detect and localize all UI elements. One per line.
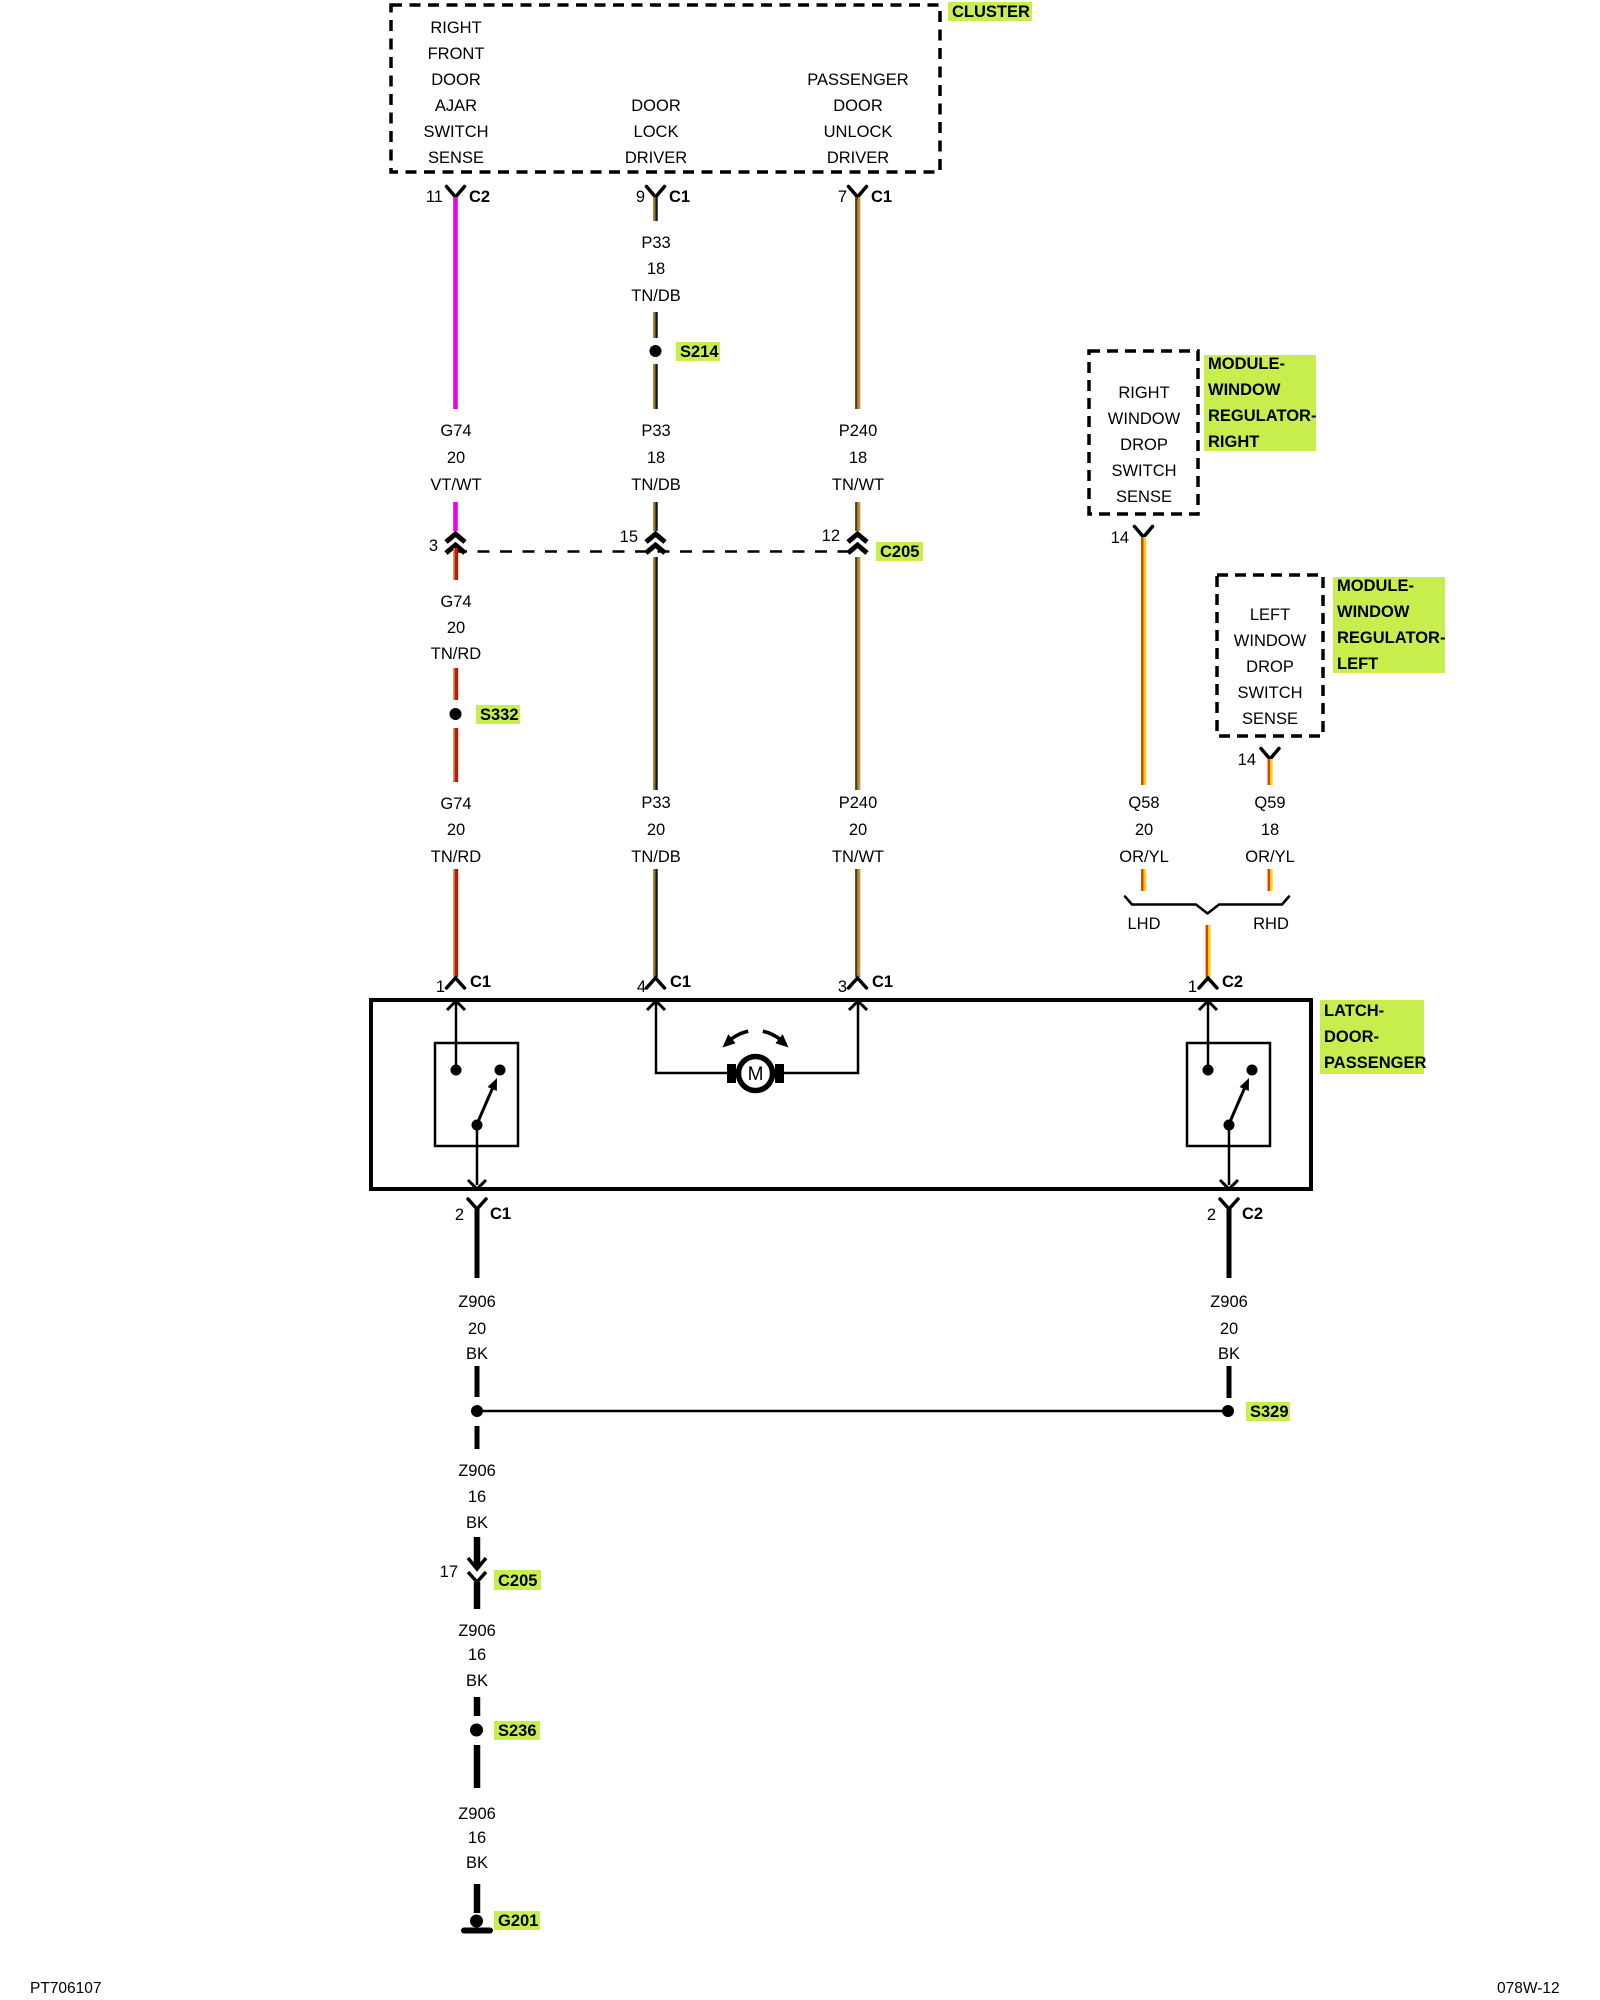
svg-text:MODULE-: MODULE-: [1208, 355, 1285, 373]
svg-text:TN/WT: TN/WT: [832, 476, 884, 494]
svg-text:16: 16: [468, 1646, 486, 1664]
pin DOOR LOCK DRIVER: [625, 97, 687, 167]
module window regulator left box: [1217, 575, 1323, 736]
label P33 18 TN/DB: [631, 234, 681, 305]
svg-text:LHD: LHD: [1127, 915, 1160, 933]
svg-text:BK: BK: [466, 1672, 488, 1690]
wire OR/YL to latch C2: [1207, 925, 1210, 977]
label Z906 20 BK left: [458, 1293, 496, 1363]
svg-text:20: 20: [849, 821, 867, 839]
svg-text:14: 14: [1238, 751, 1256, 769]
wire Z906 20 BK left upper: [475, 1209, 480, 1278]
label P33 20 TN/DB lower: [631, 794, 681, 866]
svg-text:18: 18: [1261, 821, 1279, 839]
svg-text:REGULATOR-: REGULATOR-: [1337, 629, 1445, 647]
wire Q59 18 OR/YL: [1269, 759, 1272, 785]
wire P33 segment below S214: [654, 364, 656, 409]
connector pin 14 (regulator left): [1238, 749, 1279, 770]
svg-text:16: 16: [468, 1488, 486, 1506]
svg-text:DOOR: DOOR: [631, 97, 681, 115]
wire G74 magenta lower stub: [453, 502, 458, 531]
wire P33 20 TN/DB long segment: [654, 557, 656, 790]
latch door passenger box: [371, 1000, 1311, 1189]
label G74 20 TN/RD: [431, 593, 481, 663]
wire S329 tie line: [477, 1410, 1228, 1413]
pin LEFT WINDOW DROP SWITCH SENSE: [1234, 606, 1307, 728]
svg-text:P240: P240: [839, 422, 878, 440]
svg-text:LATCH-: LATCH-: [1324, 1002, 1384, 1020]
svg-text:S329: S329: [1250, 1403, 1289, 1421]
label P33 18 TN/DB mid: [631, 422, 681, 494]
svg-text:VT/WT: VT/WT: [430, 476, 481, 494]
svg-text:C1: C1: [470, 973, 491, 991]
wire Z906 16 BK to C205: [474, 1537, 481, 1566]
svg-text:Q58: Q58: [1128, 794, 1159, 812]
connector pin 9 C1 (cluster): [636, 187, 690, 207]
svg-text:7: 7: [838, 188, 847, 206]
svg-text:P33: P33: [641, 794, 670, 812]
wire switch2 to latch pin2 C2: [1220, 1128, 1238, 1189]
connector pin 11 C2 (cluster): [426, 187, 490, 207]
wire P33 segment above S214: [654, 312, 656, 338]
node CLUSTER label: [948, 2, 1032, 21]
svg-text:12: 12: [822, 527, 840, 545]
label P240 20 TN/WT lower: [832, 794, 884, 866]
label Q58 20 OR/YL: [1119, 794, 1169, 866]
switch1 lever: [477, 1078, 497, 1124]
wire G74 20 TN/RD upper segment: [454, 548, 456, 580]
svg-text:OR/YL: OR/YL: [1245, 848, 1295, 866]
svg-text:LEFT: LEFT: [1250, 606, 1290, 624]
svg-text:WINDOW: WINDOW: [1337, 603, 1410, 621]
svg-text:BK: BK: [466, 1514, 488, 1532]
node switch1 common terminal: [451, 1065, 462, 1076]
svg-text:OR/YL: OR/YL: [1119, 848, 1169, 866]
node switch2 output terminal: [1224, 1120, 1235, 1131]
node switch2 NO terminal: [1247, 1065, 1258, 1076]
connector pin 1 C2 (latch): [1188, 973, 1243, 996]
node switch2 common terminal: [1203, 1065, 1214, 1076]
svg-text:DRIVER: DRIVER: [625, 149, 687, 167]
svg-text:Z906: Z906: [458, 1462, 496, 1480]
node MODULE-WINDOW REGULATOR-LEFT label: [1333, 577, 1445, 673]
svg-text:3: 3: [429, 537, 438, 555]
svg-text:20: 20: [447, 821, 465, 839]
svg-text:16: 16: [468, 1829, 486, 1847]
svg-text:TN/DB: TN/DB: [631, 476, 681, 494]
wire G74 20 VT/WT (magenta): [453, 197, 458, 409]
label Q59 18 OR/YL: [1245, 794, 1295, 866]
svg-text:9: 9: [636, 188, 645, 206]
svg-text:WINDOW: WINDOW: [1108, 410, 1181, 428]
svg-text:TN/RD: TN/RD: [431, 645, 481, 663]
label G74 20 TN/RD lower: [431, 795, 481, 866]
wire latch pin4 C1 to motor: [647, 1001, 727, 1073]
svg-text:20: 20: [468, 1320, 486, 1338]
wire Z906 to ground: [474, 1884, 481, 1913]
node LATCH-DOOR-PASSENGER label: [1320, 1000, 1426, 1074]
wire latch pin1 C2 to switch 2: [1199, 1001, 1217, 1070]
svg-text:S332: S332: [480, 706, 519, 724]
svg-text:RIGHT: RIGHT: [1118, 384, 1169, 402]
svg-text:DOOR: DOOR: [833, 97, 883, 115]
svg-text:SENSE: SENSE: [428, 149, 484, 167]
svg-text:078W-12: 078W-12: [1497, 1980, 1560, 1997]
svg-text:MODULE-: MODULE-: [1337, 577, 1414, 595]
node switch1 output terminal: [472, 1120, 483, 1131]
svg-text:BK: BK: [1218, 1345, 1240, 1363]
connector pin 14 (regulator right): [1111, 527, 1153, 548]
wire P240 stub above C205: [856, 502, 859, 531]
splice S214: [650, 342, 721, 361]
wire Z906 right stub to S329: [1227, 1366, 1232, 1398]
svg-text:18: 18: [849, 449, 867, 467]
svg-text:WINDOW: WINDOW: [1234, 632, 1307, 650]
label Z906 16 BK: [458, 1462, 496, 1532]
wire P33 stub above C205: [654, 502, 656, 531]
wire G74 segment to latch: [454, 869, 456, 977]
svg-text:C2: C2: [1222, 973, 1243, 991]
connector pin 1 C1 (latch): [436, 973, 491, 996]
splice S236: [470, 1721, 540, 1740]
svg-text:G74: G74: [440, 593, 471, 611]
svg-text:DRIVER: DRIVER: [827, 149, 889, 167]
wire P33 18 TN/DB upper: [654, 197, 656, 221]
connector C205 pin 12 chevrons: [822, 527, 867, 553]
svg-text:SWITCH: SWITCH: [1111, 462, 1176, 480]
label P240 18 TN/WT: [832, 422, 884, 494]
module window regulator right box: [1089, 351, 1198, 514]
svg-text:TN/WT: TN/WT: [832, 848, 884, 866]
svg-text:20: 20: [1135, 821, 1153, 839]
connector pin 7 C1 (cluster): [838, 187, 892, 207]
junction left S329: [471, 1405, 483, 1417]
svg-text:UNLOCK: UNLOCK: [824, 123, 893, 141]
wire Z906 to S236: [474, 1697, 481, 1716]
svg-text:DROP: DROP: [1120, 436, 1168, 454]
svg-text:18: 18: [647, 260, 665, 278]
pin RIGHT WINDOW DROP SWITCH SENSE: [1108, 384, 1181, 506]
svg-text:S236: S236: [498, 1722, 537, 1740]
svg-text:G201: G201: [498, 1912, 538, 1930]
svg-text:SWITCH: SWITCH: [423, 123, 488, 141]
wire G74 segment below S332: [454, 728, 456, 782]
svg-text:M: M: [748, 1064, 764, 1085]
svg-text:15: 15: [620, 528, 638, 546]
splice S329: [1222, 1402, 1290, 1421]
wire Z906 20 BK right upper: [1227, 1209, 1232, 1278]
svg-text:AJAR: AJAR: [435, 97, 477, 115]
svg-text:Q59: Q59: [1254, 794, 1285, 812]
svg-text:Z906: Z906: [458, 1293, 496, 1311]
svg-text:C205: C205: [498, 1572, 537, 1590]
svg-text:17: 17: [440, 1563, 458, 1581]
svg-text:SENSE: SENSE: [1242, 710, 1298, 728]
svg-text:PT706107: PT706107: [30, 1980, 102, 1997]
wire Q58 stub to brace: [1142, 869, 1145, 891]
node LHD/RHD selection brace: [1125, 897, 1289, 914]
svg-text:C1: C1: [871, 188, 892, 206]
wire Q59 stub to brace: [1269, 869, 1272, 891]
svg-text:11: 11: [426, 188, 443, 206]
svg-text:20: 20: [647, 821, 665, 839]
svg-text:RIGHT: RIGHT: [430, 19, 481, 37]
wire latch pin1 C1 to switch 1: [447, 1001, 465, 1070]
svg-text:WINDOW: WINDOW: [1208, 381, 1281, 399]
svg-text:C1: C1: [670, 973, 691, 991]
svg-text:C1: C1: [490, 1205, 511, 1223]
splice S332: [450, 705, 521, 724]
svg-text:3: 3: [838, 978, 847, 996]
svg-text:RIGHT: RIGHT: [1208, 433, 1259, 451]
svg-text:C205: C205: [880, 543, 919, 561]
svg-text:1: 1: [1188, 978, 1197, 996]
svg-text:DROP: DROP: [1246, 658, 1294, 676]
svg-text:PASSENGER: PASSENGER: [807, 71, 909, 89]
svg-text:BK: BK: [466, 1854, 488, 1872]
connector pin 17 C205: [440, 1558, 541, 1609]
connector C205 pin 3 chevrons: [429, 534, 465, 555]
svg-text:C1: C1: [872, 973, 893, 991]
svg-text:14: 14: [1111, 529, 1129, 547]
svg-text:C2: C2: [469, 188, 490, 206]
switch drop (passenger latch) box: [1187, 1043, 1270, 1146]
svg-text:TN/RD: TN/RD: [431, 848, 481, 866]
node C205 label: [876, 542, 923, 561]
connector C205 dashed tie line: [455, 550, 858, 553]
svg-text:SWITCH: SWITCH: [1237, 684, 1302, 702]
wire Z906 below S329: [475, 1426, 480, 1449]
svg-text:Z906: Z906: [458, 1622, 496, 1640]
svg-text:CLUSTER: CLUSTER: [952, 3, 1030, 21]
svg-text:Z906: Z906: [458, 1805, 496, 1823]
pin PASSENGER DOOR UNLOCK DRIVER: [807, 71, 909, 167]
connector pin 2 C2 (latch bottom): [1207, 1199, 1263, 1224]
switch2 lever: [1229, 1078, 1249, 1124]
wire Q58 20 OR/YL: [1142, 537, 1145, 785]
svg-text:G74: G74: [440, 795, 471, 813]
svg-text:C1: C1: [669, 188, 690, 206]
svg-text:18: 18: [647, 449, 665, 467]
motor rotation arrows: [723, 1031, 789, 1047]
wire P240 18 TN/WT upper: [856, 197, 859, 409]
wire G74 segment above S332: [454, 668, 456, 700]
ground G201: [464, 1911, 540, 1931]
svg-text:BK: BK: [466, 1345, 488, 1363]
svg-text:2: 2: [1207, 1206, 1216, 1224]
wire motor to latch pin3 C1: [784, 1001, 867, 1073]
svg-text:C2: C2: [1242, 1205, 1263, 1223]
svg-text:DOOR-: DOOR-: [1324, 1028, 1379, 1046]
svg-text:P33: P33: [641, 234, 670, 252]
svg-text:1: 1: [436, 978, 445, 996]
node MODULE-WINDOW REGULATOR-RIGHT label: [1204, 355, 1316, 451]
label Z906 16 BK bottom: [458, 1805, 496, 1872]
motor M terminals: [727, 1064, 784, 1083]
svg-text:RHD: RHD: [1253, 915, 1289, 933]
svg-text:SENSE: SENSE: [1116, 488, 1172, 506]
svg-text:S214: S214: [680, 343, 719, 361]
connector pin 2 C1 (latch bottom): [455, 1199, 511, 1224]
wire P33 segment to latch: [654, 869, 656, 977]
svg-text:TN/DB: TN/DB: [631, 848, 681, 866]
svg-text:Z906: Z906: [1210, 1293, 1248, 1311]
svg-text:20: 20: [447, 449, 465, 467]
cluster module box: [391, 5, 940, 172]
svg-text:REGULATOR-: REGULATOR-: [1208, 407, 1316, 425]
wire P240 20 TN/WT long segment: [856, 557, 859, 790]
connector pin 4 C1 (latch): [637, 973, 691, 996]
label G74 20 VT/WT: [430, 422, 481, 494]
svg-text:PASSENGER: PASSENGER: [1324, 1054, 1426, 1072]
node switch1 NO terminal: [495, 1065, 506, 1076]
svg-text:20: 20: [1220, 1320, 1238, 1338]
wire Z906 below S236: [474, 1745, 481, 1788]
pin RIGHT FRONT DOOR AJAR SWITCH SENSE: [423, 19, 488, 167]
connector pin 3 C1 (latch): [838, 973, 893, 996]
wire switch1 to latch pin2 C1: [468, 1128, 486, 1189]
svg-text:P240: P240: [839, 794, 878, 812]
motor M: [739, 1057, 773, 1091]
svg-text:LOCK: LOCK: [634, 123, 679, 141]
label Z906 20 BK right: [1210, 1293, 1248, 1363]
svg-text:20: 20: [447, 619, 465, 637]
svg-text:LEFT: LEFT: [1337, 655, 1378, 673]
svg-text:4: 4: [637, 978, 646, 996]
wire P240 segment to latch: [856, 869, 859, 977]
svg-text:FRONT: FRONT: [428, 45, 485, 63]
label Z906 16 BK below C205: [458, 1622, 496, 1690]
svg-text:P33: P33: [641, 422, 670, 440]
svg-text:G74: G74: [440, 422, 471, 440]
svg-text:2: 2: [455, 1206, 464, 1224]
connector C205 pin 15 chevrons: [620, 528, 665, 553]
svg-text:TN/DB: TN/DB: [631, 287, 681, 305]
wire Z906 left stub to S329: [475, 1366, 480, 1397]
switch ajar (passenger latch) box: [435, 1043, 518, 1146]
svg-text:DOOR: DOOR: [431, 71, 481, 89]
